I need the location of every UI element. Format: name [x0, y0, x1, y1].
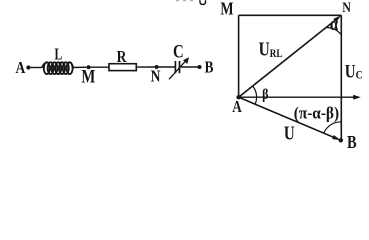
cut-off text fragment at top edge	[176, 0, 193, 1]
svg-text:M: M	[220, 0, 233, 19]
angle (pi-alpha-beta) arc at B	[324, 122, 341, 133]
inductor L	[42, 62, 73, 74]
svg-text:A: A	[232, 99, 242, 117]
svg-text:C: C	[173, 41, 184, 62]
angle alpha arc at N	[326, 27, 341, 34]
U arrowhead at B	[332, 135, 341, 140]
right side N-B (U_C line)	[340, 15, 342, 140]
svg-text:B: B	[205, 59, 214, 77]
svg-text:β: β	[262, 86, 268, 102]
svg-text:N: N	[151, 67, 161, 86]
node A dot	[236, 95, 240, 99]
horizontal axis from A	[239, 96, 356, 98]
node M dot	[87, 65, 91, 69]
vector U_RL : A to N	[239, 20, 335, 97]
cut-off letter g descender	[200, 0, 206, 4]
capacitor C right plate	[179, 61, 181, 73]
svg-text:α: α	[330, 13, 339, 34]
left side M-A	[238, 15, 240, 97]
node B dot	[197, 65, 201, 69]
wire resistor to N	[136, 66, 155, 68]
variable capacitor arrow	[169, 60, 186, 79]
svg-text:L: L	[54, 45, 62, 64]
svg-text:M: M	[81, 66, 95, 87]
wire capacitor to B	[180, 66, 198, 68]
resistor R	[109, 64, 136, 71]
svg-text:N: N	[342, 0, 351, 15]
node B dot	[339, 138, 343, 142]
axis arrowhead	[353, 95, 361, 100]
node N dot	[155, 65, 159, 69]
top side M-N	[239, 14, 342, 16]
vector U : A to B	[239, 97, 336, 138]
wire N to capacitor	[158, 66, 175, 68]
angle beta arc at A	[253, 86, 257, 104]
svg-text:B: B	[347, 131, 357, 150]
U_RL arrowhead at N	[333, 15, 341, 22]
capacitor C left plate	[174, 61, 176, 73]
node A dot	[26, 65, 30, 69]
svg-text:U: U	[284, 121, 295, 144]
svg-text:A: A	[15, 58, 25, 77]
wire A to inductor	[30, 67, 42, 69]
wire M to resistor	[90, 66, 109, 68]
wire inductor to M	[73, 66, 87, 68]
svg-text:(π-α-β): (π-α-β)	[294, 105, 339, 123]
svg-text:R: R	[117, 48, 128, 67]
